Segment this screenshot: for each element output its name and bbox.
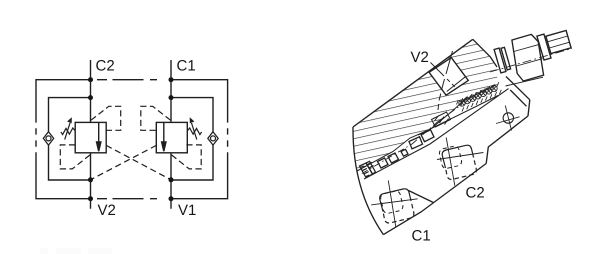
cross pilot line from left valve to V1 (dashed) (106, 145, 171, 179)
screw hole crosshair (496, 106, 520, 131)
junction dots (88, 77, 174, 201)
cartridge internals: seal land 2 (388, 153, 399, 163)
C1 crosshair centerlines (371, 180, 418, 227)
cartridge internals: seal land 1 (378, 158, 389, 168)
flow arrow inside left valve (97, 122, 101, 151)
cartridge internals: hatched poppet block (432, 112, 451, 127)
body outline: bottom face edge (383, 164, 486, 235)
port line C2-V2 (wire) (90, 60, 92, 209)
svg-text:V1: V1 (178, 202, 196, 219)
threaded adjuster stem (546, 31, 571, 54)
bore row bottom edge / face boundary (364, 89, 509, 179)
pilot line upper loop right valve (dashed) (141, 106, 171, 130)
body outline: corner chamfer edge lower (510, 90, 526, 106)
body outline: corner chamfer edge upper (506, 77, 530, 100)
check valve CV1 (ball in seat) (43, 132, 53, 145)
svg-text:V2: V2 (410, 49, 428, 66)
V2 leader line (431, 63, 445, 77)
hatched section area above bore (353, 39, 498, 171)
pilot line upper loop left valve (dashed) (91, 106, 121, 130)
V2 port centerline (dashed) (438, 51, 453, 110)
body outline: right end face edge (528, 100, 530, 116)
bore end thread hatching (457, 82, 502, 111)
C1 port boss (rotated square pad) (380, 189, 414, 223)
cartridge internals: spring coils (459, 85, 497, 106)
pilot line lower loop right valve (dashed) (172, 145, 202, 169)
spring adjust arrow left (65, 119, 72, 140)
pilot line lower loop left valve (dashed) (60, 145, 90, 169)
check valve CV2 (ball in seat) (208, 132, 218, 145)
spring left (zigzag) (61, 128, 75, 135)
counterbalance valve body right (square) (156, 122, 187, 152)
enclosure boundary (long-dash box) (36, 80, 228, 199)
body outline: right end lower edge (486, 116, 528, 164)
flow arrow inside right valve (162, 122, 166, 151)
C1 pad step edge (409, 191, 434, 203)
C2 crosshair centerlines (437, 138, 483, 186)
cross pilot line from right valve to V2 (dashed) (91, 145, 157, 179)
svg-text:V2: V2 (97, 202, 115, 219)
cartridge internals: guide block (421, 130, 434, 142)
bore axis dash-dot centerline (362, 105, 462, 174)
faint cropped artifacts bottom-left (40, 248, 112, 254)
second washer strip (501, 47, 511, 70)
svg-text:C2: C2 (95, 58, 114, 75)
svg-text:C1: C1 (411, 228, 430, 245)
V2 port boss (white square on top face) (429, 58, 468, 96)
body outline: right face edge at cartridge (473, 39, 497, 67)
big hex nut (512, 34, 544, 81)
body outline: left steep edge (353, 127, 383, 235)
svg-text:C1: C1 (176, 58, 195, 75)
check valve branch right (wire) (171, 98, 213, 180)
body outline: top edge (353, 39, 473, 127)
C2 port boss (rotated square pad) (439, 145, 477, 179)
lock washer (537, 34, 551, 60)
counterbalance valve body left (square) (75, 122, 106, 152)
washer against body face (494, 48, 506, 73)
screw hole circle (503, 113, 513, 123)
cartridge axis centerline (dash-dot) (490, 48, 572, 72)
cartridge internals: piston block (409, 137, 423, 149)
cartridge internals: small spacer (401, 149, 408, 156)
cartridge internals: end plug (360, 161, 376, 177)
svg-text:C2: C2 (465, 185, 484, 202)
bore lower wall line under poppet and spring (418, 96, 498, 136)
bore row top edge (357, 86, 495, 172)
check valve branch left (wire) (49, 98, 91, 180)
spring adjust arrow right (190, 119, 197, 140)
port line C1-V1 (wire) (170, 60, 172, 209)
shoulder line under nut (506, 77, 544, 86)
spring right (zigzag) (187, 128, 201, 135)
